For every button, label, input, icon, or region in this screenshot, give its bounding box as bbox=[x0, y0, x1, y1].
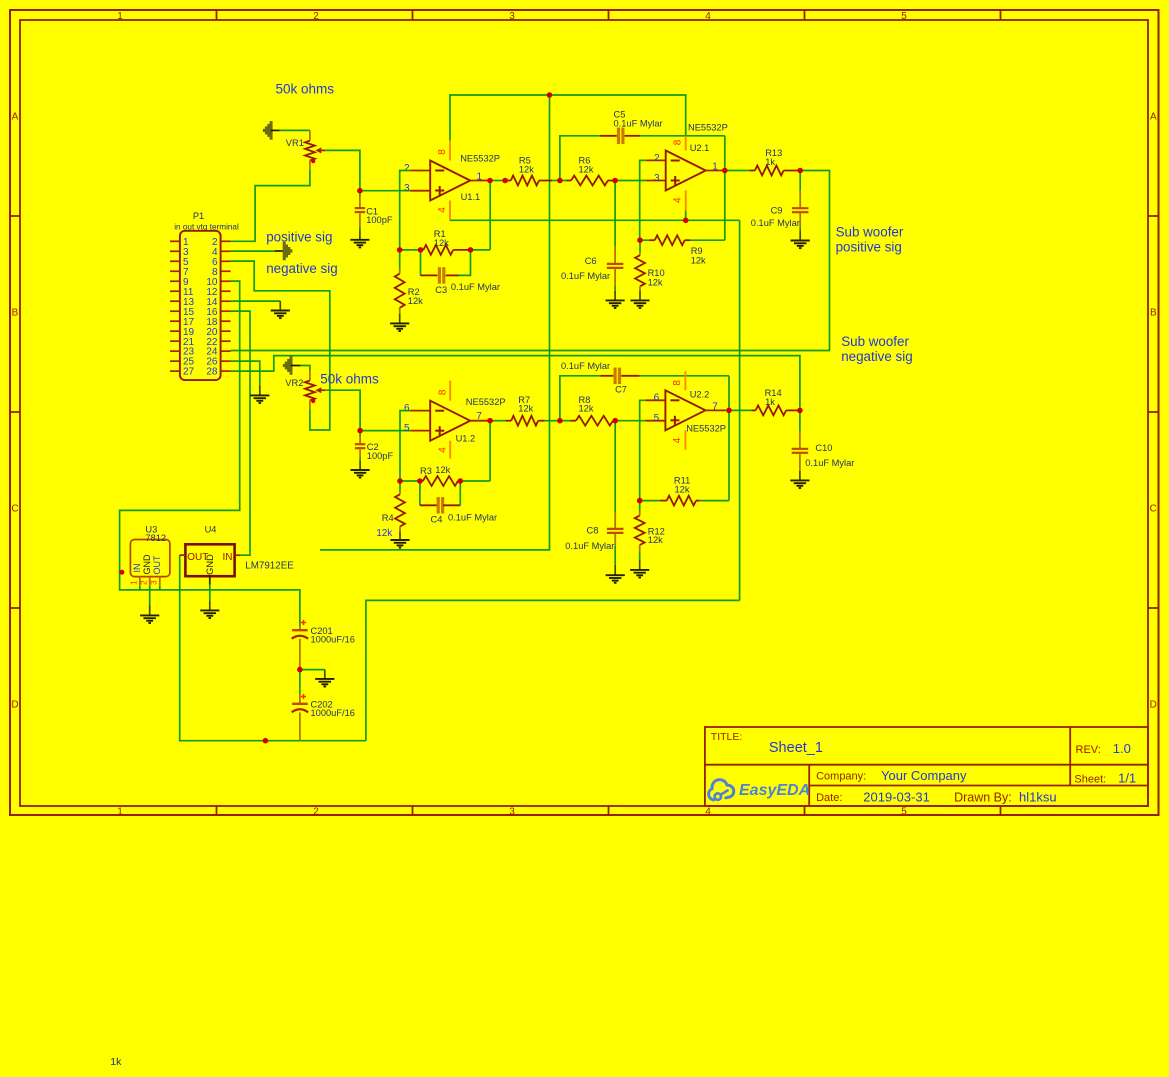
junction R3 left bbox=[397, 478, 403, 484]
resistor R3 bbox=[420, 480, 423, 482]
U2.2 pin5 stub bbox=[645, 420, 665, 422]
node VR1 flag tail bbox=[271, 129, 280, 131]
junction R9/R10 bbox=[637, 237, 643, 243]
svg-text:U2.2: U2.2 bbox=[690, 389, 710, 399]
U3 pin3 stub bbox=[159, 577, 161, 586]
svg-text:C3: C3 bbox=[435, 285, 447, 295]
ground C2 bbox=[359, 461, 361, 470]
ground C8 bbox=[614, 565, 616, 575]
svg-text:A: A bbox=[1150, 112, 1157, 123]
U1.2 pin6 stub bbox=[410, 410, 430, 412]
capacitor C201 bbox=[299, 626, 301, 629]
capacitor C1 bbox=[359, 191, 361, 196]
svg-text:12k: 12k bbox=[675, 484, 690, 494]
capacitor C10 bbox=[799, 410, 801, 431]
wire to R3 bbox=[400, 480, 420, 482]
capacitor C3 bbox=[421, 274, 438, 276]
svg-text:OUT: OUT bbox=[152, 555, 162, 575]
resistor R2 bbox=[399, 250, 401, 269]
U1.1 pin1 stub bbox=[470, 180, 490, 182]
svg-text:0.1uF Mylar: 0.1uF Mylar bbox=[561, 361, 610, 371]
svg-text:P1: P1 bbox=[193, 211, 204, 221]
svg-text:8: 8 bbox=[673, 139, 684, 145]
svg-text:C10: C10 bbox=[815, 443, 832, 453]
svg-text:1/1: 1/1 bbox=[1118, 771, 1136, 786]
svg-text:0.1uF Mylar: 0.1uF Mylar bbox=[565, 541, 614, 551]
wire pin24 sub woofer positive bbox=[231, 171, 830, 351]
wire C4 right leg bbox=[459, 481, 461, 505]
svg-text:LM7912EE: LM7912EE bbox=[245, 560, 294, 571]
svg-text:GND: GND bbox=[142, 554, 152, 575]
wire mid to ground bbox=[300, 669, 325, 671]
svg-text:Company:: Company: bbox=[816, 771, 866, 783]
svg-text:4: 4 bbox=[673, 197, 684, 203]
svg-text:12k: 12k bbox=[691, 256, 706, 266]
svg-text:7: 7 bbox=[476, 411, 482, 422]
U2.2 pin6 stub bbox=[645, 399, 665, 401]
svg-text:TITLE:: TITLE: bbox=[711, 731, 743, 743]
svg-text:IN: IN bbox=[223, 552, 233, 563]
svg-text:12k: 12k bbox=[648, 535, 663, 545]
wire C3 left leg bbox=[420, 250, 422, 276]
svg-text:VR2: VR2 bbox=[285, 378, 303, 388]
wire C7 to output bbox=[728, 376, 730, 501]
svg-text:REV:: REV: bbox=[1076, 744, 1101, 756]
wire pin2 to VR1 bottom bbox=[231, 170, 310, 242]
svg-text:0.1uF Mylar: 0.1uF Mylar bbox=[614, 118, 663, 128]
svg-text:100pF: 100pF bbox=[367, 451, 394, 461]
wire C7 right bbox=[640, 375, 729, 377]
junction R1 left bbox=[397, 247, 403, 253]
ground C9 bbox=[799, 231, 801, 241]
svg-text:R10: R10 bbox=[648, 268, 665, 278]
wire VR1 wiper to U1.1 + bbox=[325, 150, 360, 190]
node positive sig tail bbox=[275, 250, 285, 252]
wire long vertical x550 down to lower-left bbox=[320, 95, 549, 550]
svg-text:3: 3 bbox=[509, 11, 515, 22]
junction U1.2 output bbox=[487, 418, 493, 424]
wire to R1 bbox=[400, 249, 421, 251]
svg-text:NE5532P: NE5532P bbox=[686, 424, 726, 434]
U2.2 pin7 stub bbox=[705, 409, 725, 411]
wire C5 left bbox=[560, 136, 600, 181]
svg-text:12k: 12k bbox=[579, 404, 594, 414]
wire out to R14 bbox=[729, 409, 751, 411]
wire V+ rail top (U1.1 pin8 - U2.1 pin8) bbox=[450, 95, 686, 141]
junction U2.1 out bbox=[722, 168, 728, 174]
wire U1.2 out feedback drop bbox=[489, 421, 491, 481]
wire bottom loop y740 (U4 OUT net) bbox=[180, 555, 366, 741]
wire C6 top bbox=[614, 181, 616, 247]
capacitor C9 bbox=[799, 171, 801, 191]
svg-text:negative sig: negative sig bbox=[841, 349, 912, 364]
ground C1 bbox=[359, 231, 361, 240]
svg-text:12k: 12k bbox=[435, 465, 450, 475]
junction R3 right bbox=[458, 478, 464, 484]
ground R10 bbox=[639, 291, 641, 300]
svg-text:positive sig: positive sig bbox=[266, 230, 332, 245]
wire VR1 top bbox=[280, 129, 310, 131]
wire VR2 top bbox=[301, 366, 310, 371]
svg-text:1k: 1k bbox=[765, 157, 775, 167]
ground pin26 bbox=[259, 385, 261, 395]
wire U3 pin1 bbox=[139, 585, 141, 590]
svg-text:6: 6 bbox=[654, 393, 660, 404]
U3 pin2 stub bbox=[149, 577, 151, 586]
svg-text:R3: R3 bbox=[420, 466, 432, 476]
wire out to R13 bbox=[725, 170, 750, 172]
ground R4 bbox=[399, 532, 401, 541]
capacitor C7 bbox=[600, 375, 613, 377]
svg-text:5: 5 bbox=[901, 806, 907, 817]
svg-text:C: C bbox=[11, 504, 18, 515]
U1.1 pin3 stub bbox=[410, 190, 430, 192]
junction R3/C4 left bbox=[417, 478, 423, 484]
svg-text:C8: C8 bbox=[587, 525, 599, 535]
ground pin14 bbox=[279, 301, 281, 310]
svg-text:negative sig: negative sig bbox=[266, 261, 337, 276]
svg-text:in out vtg terminal: in out vtg terminal bbox=[174, 223, 239, 232]
node VR2 flag tail bbox=[291, 365, 301, 367]
svg-text:12k: 12k bbox=[518, 404, 533, 414]
resistor R11 bbox=[640, 500, 660, 502]
svg-text:Sub woofer: Sub woofer bbox=[841, 334, 909, 349]
wire U3 pin3 bbox=[159, 585, 161, 590]
wire C3 right leg bbox=[459, 250, 471, 276]
svg-text:Sub woofer: Sub woofer bbox=[836, 225, 904, 240]
resistor R4 bbox=[399, 481, 401, 492]
U2.2 pin8 power bbox=[684, 371, 686, 390]
svg-text:7: 7 bbox=[712, 402, 718, 413]
svg-text:4: 4 bbox=[672, 437, 683, 443]
capacitor C5 bbox=[600, 135, 617, 137]
junction on bottom wire bbox=[263, 738, 269, 744]
junction R6/C6 bbox=[612, 178, 618, 184]
wire VR2 wiper to U1.2 + bbox=[325, 390, 360, 430]
svg-text:4: 4 bbox=[705, 11, 711, 22]
wire U1.1 pin2 feedback bbox=[400, 171, 411, 250]
resistor R9 bbox=[640, 239, 649, 241]
potentiometer VR1 bbox=[309, 130, 311, 140]
wire U2.1 pin2 drop bbox=[640, 160, 646, 240]
svg-text:2019-03-31: 2019-03-31 bbox=[863, 789, 930, 804]
capacitor C202 plus bbox=[301, 696, 306, 698]
svg-text:IN: IN bbox=[132, 564, 142, 573]
U3 pin1 stub bbox=[139, 577, 141, 586]
capacitor C6 bbox=[614, 247, 616, 263]
ground R2 bbox=[399, 314, 401, 324]
svg-text:1: 1 bbox=[712, 162, 718, 173]
flag positive sig bbox=[290, 249, 292, 252]
svg-text:1: 1 bbox=[117, 806, 123, 817]
svg-text:NE5532P: NE5532P bbox=[460, 154, 500, 164]
svg-text:C: C bbox=[1150, 504, 1157, 515]
regulator U4 body bbox=[185, 544, 234, 576]
junction U1.1 output bbox=[487, 178, 493, 184]
capacitor C8 bbox=[614, 512, 616, 529]
wire pin28 sub woofer negative bbox=[231, 356, 800, 411]
wire U1.2 pin6 feedback bbox=[400, 411, 410, 481]
wire C7 left bbox=[560, 376, 600, 421]
U1.1 pin4 power bbox=[449, 201, 451, 221]
svg-text:7812: 7812 bbox=[145, 533, 166, 543]
junction R7/R8/C7 bbox=[557, 418, 563, 424]
junction R14/C10 bbox=[797, 408, 803, 414]
resistor R12 bbox=[639, 501, 641, 511]
svg-text:C7: C7 bbox=[615, 385, 627, 395]
wire R11 right bbox=[700, 500, 729, 502]
svg-text:Your Company: Your Company bbox=[881, 768, 967, 783]
resistor R10 bbox=[639, 240, 641, 252]
resistor R5 bbox=[505, 180, 511, 182]
U4 GND pin bbox=[209, 576, 211, 585]
svg-text:0.1uF Mylar: 0.1uF Mylar bbox=[561, 271, 610, 281]
regulator U3 body bbox=[130, 540, 170, 577]
svg-text:0.1uF Mylar: 0.1uF Mylar bbox=[805, 458, 854, 468]
svg-text:Date:: Date: bbox=[816, 792, 842, 804]
capacitor C202 bbox=[299, 694, 301, 703]
U2.1 pin1 stub bbox=[706, 170, 725, 172]
svg-text:1000uF/16: 1000uF/16 bbox=[311, 708, 355, 718]
U2.1 pin4 power bbox=[685, 190, 687, 210]
svg-text:12k: 12k bbox=[519, 164, 534, 174]
wire C8 top bbox=[614, 421, 616, 512]
wire pin4 positive sig bbox=[231, 250, 275, 252]
op-amp U2.2 bbox=[665, 390, 705, 430]
wire pin26 to ground bbox=[231, 361, 260, 385]
wire C202 top bbox=[299, 670, 301, 694]
wire C4 left leg bbox=[419, 481, 421, 505]
svg-text:Sheet_1: Sheet_1 bbox=[769, 740, 823, 756]
svg-text:B: B bbox=[12, 308, 19, 319]
U1.2 pin8 power bbox=[449, 381, 451, 401]
P1 left pins 1-27 bbox=[170, 240, 180, 242]
wire U3 GND bbox=[149, 585, 151, 605]
svg-text:U4: U4 bbox=[205, 524, 217, 534]
svg-text:2: 2 bbox=[654, 153, 660, 164]
junction R5/R6/C5 bbox=[557, 178, 563, 184]
svg-text:12k: 12k bbox=[376, 528, 392, 539]
svg-text:5: 5 bbox=[654, 413, 660, 424]
svg-text:28: 28 bbox=[206, 367, 218, 378]
wire to U1.1 pin3 bbox=[360, 190, 410, 192]
svg-text:GND: GND bbox=[205, 554, 215, 575]
svg-text:1000uF/16: 1000uF/16 bbox=[311, 635, 355, 645]
junction R8/C8 bbox=[612, 418, 618, 424]
junction VR1 wiper / C1 bbox=[357, 188, 363, 194]
U2.2 pin4 power bbox=[684, 430, 686, 450]
wire out bbox=[490, 180, 505, 182]
wire pin6 negative sig loop bbox=[231, 261, 330, 430]
wire U2.1 pin4 to rail bbox=[685, 211, 687, 221]
ground C10 bbox=[799, 471, 801, 481]
potentiometer VR2 bbox=[309, 371, 311, 381]
resistor R13 bbox=[749, 170, 755, 172]
svg-text:12k: 12k bbox=[434, 238, 449, 248]
U1.1 pin8 power bbox=[449, 141, 451, 161]
svg-text:100pF: 100pF bbox=[366, 215, 393, 225]
svg-text:27: 27 bbox=[183, 367, 195, 378]
svg-text:1: 1 bbox=[128, 580, 138, 585]
wire to U2.1 pin3 bbox=[615, 180, 646, 182]
U2.1 pin8 power bbox=[685, 136, 687, 151]
svg-text:2: 2 bbox=[313, 11, 319, 22]
svg-text:Drawn By:: Drawn By: bbox=[954, 790, 1012, 804]
wire V- rail right drop x739.6 bbox=[739, 220, 741, 600]
svg-text:positive sig: positive sig bbox=[836, 240, 902, 255]
svg-text:NE5532P: NE5532P bbox=[466, 397, 506, 407]
svg-text:2: 2 bbox=[313, 806, 319, 817]
svg-text:C6: C6 bbox=[585, 256, 597, 266]
U2.1 pin3 stub bbox=[646, 180, 666, 182]
ground U3 bbox=[149, 605, 151, 615]
svg-text:U2.1: U2.1 bbox=[690, 143, 710, 153]
junction U2.2 out bbox=[726, 408, 732, 414]
wire U2.2 pin6 drop bbox=[640, 400, 646, 500]
ground R12 bbox=[639, 561, 641, 570]
EasyEDA logo cloud bbox=[709, 780, 734, 800]
svg-text:EasyEDA: EasyEDA bbox=[739, 782, 810, 799]
svg-text:12k: 12k bbox=[648, 277, 663, 287]
resistor R1 bbox=[421, 249, 424, 251]
U4 IN stub bbox=[235, 554, 240, 556]
wire C5 to output bbox=[724, 136, 726, 240]
wire U2.2 out bbox=[725, 409, 729, 411]
P1 right pins 2-28 bbox=[221, 240, 231, 242]
svg-text:4: 4 bbox=[705, 806, 711, 817]
junction R1/C3 left bbox=[418, 247, 424, 253]
flag VR1 top bbox=[263, 129, 265, 132]
capacitor C201 plus bbox=[301, 622, 306, 624]
wire R9 right bbox=[690, 239, 725, 241]
U1.2 pin5 stub bbox=[410, 430, 430, 432]
wire U1.1 out feedback drop bbox=[489, 181, 491, 250]
svg-text:2: 2 bbox=[404, 163, 410, 174]
wire pin10 to regulators bbox=[120, 281, 300, 626]
title block grid bbox=[705, 727, 1148, 806]
svg-text:1: 1 bbox=[117, 11, 123, 22]
resistor R6 bbox=[560, 180, 567, 182]
svg-text:5: 5 bbox=[404, 423, 410, 434]
wire to U2.2 pin5 bbox=[615, 420, 645, 422]
connector P1 body bbox=[180, 231, 221, 380]
junction rail/top of long vertical bbox=[547, 92, 553, 98]
svg-text:3: 3 bbox=[404, 183, 410, 194]
junction U3 left bbox=[119, 570, 124, 575]
U1.2 pin4 power bbox=[449, 441, 451, 459]
wire V- rail bottom y600 bbox=[366, 600, 740, 740]
wire R1 right to fb bbox=[471, 249, 491, 251]
svg-text:0.1uF Mylar: 0.1uF Mylar bbox=[451, 282, 500, 292]
svg-text:8: 8 bbox=[437, 389, 448, 395]
wire pin14 to ground bbox=[231, 300, 281, 302]
ground U4 bbox=[209, 601, 211, 610]
flag VR2 top bbox=[283, 364, 285, 367]
svg-text:1.0: 1.0 bbox=[1113, 741, 1131, 756]
svg-text:U1.2: U1.2 bbox=[456, 434, 476, 444]
op-amp U1.2 bbox=[430, 401, 470, 441]
junction R5 left bbox=[502, 178, 508, 184]
svg-text:8: 8 bbox=[437, 149, 448, 155]
svg-text:4: 4 bbox=[437, 447, 448, 453]
svg-text:VR1: VR1 bbox=[286, 138, 304, 148]
svg-text:D: D bbox=[1150, 700, 1157, 711]
svg-text:U1.1: U1.1 bbox=[461, 192, 481, 202]
svg-text:6: 6 bbox=[404, 403, 410, 414]
resistor R8 bbox=[560, 420, 571, 422]
junction VR2 wiper / C2 bbox=[357, 428, 363, 434]
svg-text:4: 4 bbox=[437, 207, 448, 213]
wire R3 right to fb bbox=[460, 480, 490, 482]
svg-text:1k: 1k bbox=[765, 397, 775, 407]
op-amp U2.1 bbox=[666, 151, 706, 191]
svg-text:A: A bbox=[12, 112, 19, 123]
junction R13/C9 bbox=[797, 168, 803, 174]
svg-text:50k ohms: 50k ohms bbox=[276, 81, 335, 96]
capacitor C4 bbox=[420, 504, 438, 506]
svg-text:C9: C9 bbox=[771, 206, 783, 216]
U1.1 pin2 stub bbox=[410, 170, 430, 172]
U2.1 pin2 stub bbox=[646, 159, 666, 161]
U1.2 pin7 stub bbox=[470, 420, 490, 422]
svg-text:5: 5 bbox=[901, 11, 907, 22]
svg-text:8: 8 bbox=[672, 380, 683, 386]
op-amp U1.1 bbox=[430, 161, 470, 201]
junction C201/C202 bbox=[297, 667, 303, 673]
svg-text:hl1ksu: hl1ksu bbox=[1019, 789, 1057, 804]
svg-text:NE5532P: NE5532P bbox=[688, 123, 728, 133]
wire V- rail y220 (pin4 row) bbox=[449, 219, 739, 221]
svg-text:0.1uF Mylar: 0.1uF Mylar bbox=[751, 218, 800, 228]
svg-text:3: 3 bbox=[509, 806, 515, 817]
ground C201 bbox=[324, 670, 326, 679]
svg-text:R9: R9 bbox=[691, 246, 703, 256]
svg-text:1k: 1k bbox=[110, 1056, 122, 1068]
svg-text:C4: C4 bbox=[431, 515, 443, 525]
junction R11/R12 bbox=[637, 498, 643, 504]
svg-text:R4: R4 bbox=[382, 513, 394, 523]
resistor R7 bbox=[490, 420, 506, 422]
svg-text:0.1uF Mylar: 0.1uF Mylar bbox=[448, 513, 497, 523]
ground C6 bbox=[614, 291, 616, 301]
resistor R14 bbox=[751, 409, 755, 411]
junction U2.1 pin4 rail bbox=[683, 218, 689, 224]
svg-text:12k: 12k bbox=[579, 164, 594, 174]
wire pin16 to U4 IN bbox=[231, 311, 250, 555]
svg-text:3: 3 bbox=[654, 173, 660, 184]
svg-text:B: B bbox=[1150, 308, 1157, 319]
svg-text:D: D bbox=[11, 700, 18, 711]
junction R1 right bbox=[468, 247, 474, 253]
capacitor C2 bbox=[359, 431, 361, 436]
svg-text:50k ohms: 50k ohms bbox=[320, 372, 379, 387]
sheet border frame bbox=[10, 10, 1159, 815]
svg-text:Sheet:: Sheet: bbox=[1074, 774, 1106, 786]
wire C5 right bbox=[640, 135, 725, 137]
svg-text:1: 1 bbox=[477, 171, 483, 182]
U4 OUT stub bbox=[180, 554, 186, 556]
svg-text:12k: 12k bbox=[408, 296, 423, 306]
wire to U1.2 pin5 bbox=[360, 430, 410, 432]
